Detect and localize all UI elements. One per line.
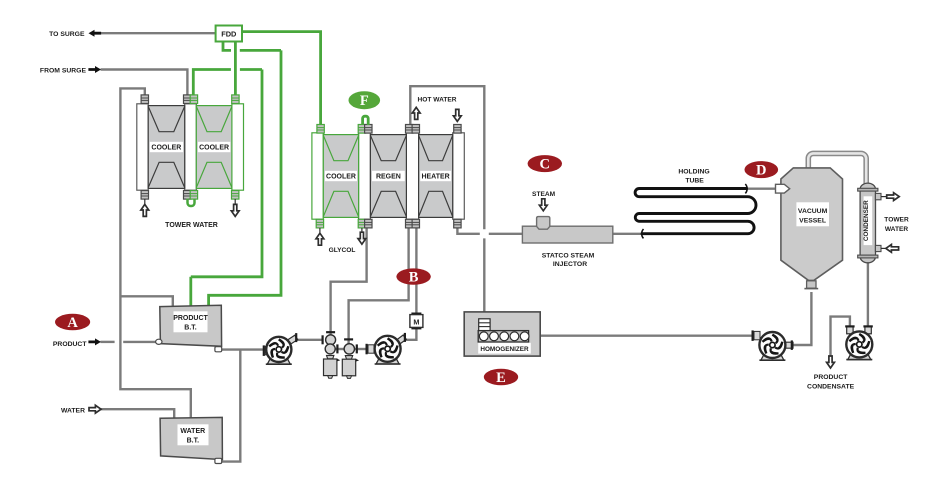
svg-text:HOMOGENIZER: HOMOGENIZER <box>480 346 529 353</box>
wire: valve V1 lower to valve V2 <box>336 348 346 350</box>
node D marker <box>745 161 779 179</box>
valve V2 (air valve) <box>342 338 359 378</box>
pump P1 (product feed pump) <box>263 91 909 390</box>
port: cooler1 bottom-right <box>184 191 191 200</box>
condenser tower-water ports <box>875 193 881 199</box>
wire: PRODUCT B.T. outlet to pump P1 suction <box>222 348 267 350</box>
wire: holding tube outlet to vacuum vessel inlet nozzle <box>747 187 779 189</box>
port: cooler1 bottom-left <box>141 191 148 200</box>
svg-text:PRODUCT: PRODUCT <box>814 374 848 381</box>
homogenizer unit <box>464 312 540 356</box>
svg-text:B.T.: B.T. <box>187 437 200 444</box>
port: cooler/regen boundary bottom gray <box>365 219 372 228</box>
svg-text:TOWER: TOWER <box>884 217 909 224</box>
wire: water inlet line into WATER B.T. <box>101 409 175 418</box>
green sensor stub above mid-cooler top-right port (node F probe) <box>363 116 369 125</box>
wire: FDD bottom-center green line down to cooler2 top-right port <box>234 42 237 96</box>
port: regen/heater boundary top pair <box>406 125 413 134</box>
heat exchanger frame columns (middle bank) <box>312 133 323 219</box>
wire: pump P2 discharge up to flow meter M <box>405 329 416 340</box>
node E marker <box>484 369 518 386</box>
arrow: to surge (solid left) <box>89 30 102 37</box>
tower water outlet arrow (cooler1 bottom, up) <box>144 199 146 206</box>
node C marker <box>528 155 562 173</box>
svg-text:B: B <box>409 270 419 286</box>
arrow: from surge (solid right) <box>88 66 101 73</box>
svg-text:D: D <box>756 163 766 179</box>
svg-text:FROM SURGE: FROM SURGE <box>40 67 87 74</box>
svg-text:COOLER: COOLER <box>199 145 229 152</box>
heat exchanger COOLER #1 (tower water) <box>148 106 185 189</box>
arrow: tower water in bottom (hollow left) <box>881 247 886 249</box>
port: regen/heater boundary bottom pair <box>406 219 413 228</box>
svg-text:HOLDING: HOLDING <box>678 168 709 175</box>
svg-text:VESSEL: VESSEL <box>799 217 826 224</box>
hot water in arrow (above heater top-right, down) <box>453 109 461 121</box>
svg-text:COOLER: COOLER <box>326 174 356 181</box>
wire: FDD bottom-left green line down-right-down to PRODUCT B.T. (jumps FDD center line) <box>223 42 231 51</box>
port: cooler1 top-right <box>184 95 191 104</box>
svg-text:GLYCOL: GLYCOL <box>329 247 356 254</box>
wire: green drop into PRODUCT B.T. from cooler line <box>189 277 192 307</box>
heat exchanger frame columns (left cooler bank) <box>137 104 148 190</box>
condenser column <box>858 183 878 263</box>
holding tube outlet connector <box>745 184 747 193</box>
pump P2 (booster pump) <box>349 91 909 390</box>
wire: cooler2 top-left port green line right and down to PRODUCT B.T. (jump at FDD line) <box>193 70 231 96</box>
svg-text:COOLER: COOLER <box>151 145 181 152</box>
port: cooler2 bottom-right (green) <box>232 191 239 200</box>
wire: heater bottom-right port to steam injector suction <box>457 228 479 234</box>
svg-text:CONDENSATE: CONDENSATE <box>807 383 855 390</box>
port: mid-cooler top-left (green) <box>317 125 324 134</box>
port: regen top-left gray pair <box>365 125 372 134</box>
port: mid-cooler bottom-right (green) <box>358 219 365 228</box>
heat exchanger COOLER #2 (tower water, green circuit) <box>196 106 232 189</box>
wire: regen bottom-left port down-left to valve V2 top <box>349 228 409 345</box>
wire: TO SURGE line from FDD to left arrow <box>101 32 216 34</box>
svg-text:VACUUM: VACUUM <box>798 208 828 215</box>
wire: WATER B.T. outlet up to suction line <box>222 350 241 462</box>
heat exchanger HEATER <box>419 135 453 218</box>
glycol outlet arrow (mid-cooler bottom-right, down) <box>361 228 363 234</box>
holding tube serpentine <box>635 189 756 234</box>
port: mid-cooler top-right (green) <box>358 125 365 134</box>
node F marker <box>349 91 381 109</box>
tank PRODUCT B.T. (balance tank) <box>160 305 222 346</box>
flow meter M <box>410 313 423 330</box>
arrow: product condensate (hollow down) <box>827 356 835 368</box>
svg-text:HOT WATER: HOT WATER <box>417 96 456 103</box>
wire: valve V2 to pump P2 suction <box>355 348 368 350</box>
wire: condenser bottom down to pump P4 right nozzle <box>867 263 869 328</box>
wire: cooler bank1 top-left port up-over-left long line down to tanks junction <box>120 88 190 418</box>
svg-text:INJECTOR: INJECTOR <box>553 261 587 268</box>
svg-text:E: E <box>496 370 506 386</box>
arrow: product inlet (solid right) <box>88 338 101 345</box>
vacuum vessel tank <box>781 168 843 281</box>
valve V1 (dual air valve) <box>322 331 341 378</box>
wire: flow meter M up to regen bottom-right port (node B) <box>415 228 417 313</box>
svg-text:WATER: WATER <box>180 428 205 435</box>
svg-text:HEATER: HEATER <box>421 174 449 181</box>
wire: homogenizer discharge to pump P3 suction <box>540 335 753 337</box>
arrow: water inlet (hollow right) <box>89 405 101 413</box>
svg-text:FDD: FDD <box>221 30 237 39</box>
tank WATER B.T. (balance tank) <box>160 417 222 459</box>
FDD flow-diversion-device box <box>216 26 242 42</box>
heat exchanger REGEN <box>370 135 406 218</box>
node B marker <box>396 268 430 285</box>
pump P4 (condensate pump, top nozzles) <box>349 91 873 390</box>
hot water out arrow (above regen/heater top, up) <box>412 107 420 119</box>
arrow: steam in (hollow down) <box>539 199 547 211</box>
wire: mid-bank cooler/regen bottom port down-left to valve V1 top <box>331 228 367 336</box>
svg-text:PRODUCT: PRODUCT <box>53 341 87 348</box>
pipe: vacuum vessel top to condenser (outlined pipe) <box>808 153 866 183</box>
glycol inlet arrow (mid-cooler bottom-left, up) <box>319 228 321 234</box>
pump P3 (timing pump) <box>349 91 873 390</box>
svg-text:TOWER WATER: TOWER WATER <box>165 222 218 229</box>
svg-text:REGEN: REGEN <box>376 174 401 181</box>
wire: steam injector discharge to holding tube inlet <box>613 233 643 235</box>
green U stub below cooler2 bottom-left port <box>188 199 195 207</box>
port: cooler2 top-left (green) <box>190 95 197 104</box>
wire: FROM SURGE line to cooler1/cooler2 top port <box>101 70 188 96</box>
svg-text:PRODUCT: PRODUCT <box>173 315 208 322</box>
wire: product inlet line (jump gap at vertical) <box>101 341 115 343</box>
wire: branch into PRODUCT B.T. top from long left line <box>120 296 172 306</box>
wire: pump P1 discharge to valve V1 <box>297 339 322 341</box>
port: mid-cooler bottom-left (green) <box>316 219 323 228</box>
wire: FDD right green line down to mid-cooler top-left port <box>242 32 321 125</box>
svg-text:STEAM: STEAM <box>532 191 556 198</box>
heat exchanger COOLER (glycol, green circuit) <box>323 135 358 218</box>
port: cooler2 bottom-left (green) <box>190 191 197 200</box>
wire: pump P4 left nozzle up-over-down to product condensate outlet <box>831 317 850 357</box>
holding tube inlet connector <box>642 229 644 238</box>
svg-text:M: M <box>413 317 419 326</box>
arrow: tower water out top (hollow right) <box>881 196 887 198</box>
svg-text:C: C <box>540 157 550 173</box>
node A marker <box>55 314 90 331</box>
port: heater bottom-right <box>454 219 461 228</box>
wire: regen/heater top port over heater down to homogenizer (jump at injector line) <box>410 86 484 229</box>
svg-text:F: F <box>360 93 369 109</box>
tower water inlet arrow (cooler2 bottom, down) <box>234 199 236 208</box>
svg-text:A: A <box>67 315 78 331</box>
svg-text:CONDENSER: CONDENSER <box>863 200 870 241</box>
port: heater top-right <box>454 125 461 134</box>
steam injector STATCO <box>522 217 612 243</box>
svg-text:TUBE: TUBE <box>685 177 704 184</box>
svg-text:TO SURGE: TO SURGE <box>49 31 85 38</box>
vacuum vessel inlet nozzle <box>776 184 790 193</box>
svg-text:B.T.: B.T. <box>184 324 197 331</box>
port: cooler2 top-right (green) <box>232 95 239 104</box>
port: cooler1 top-left <box>141 95 148 104</box>
wire: pump P3 discharge up to vacuum vessel bottom <box>793 292 812 345</box>
svg-text:STATCO STEAM: STATCO STEAM <box>542 252 595 259</box>
svg-text:WATER: WATER <box>885 226 909 233</box>
svg-text:WATER: WATER <box>61 407 85 414</box>
